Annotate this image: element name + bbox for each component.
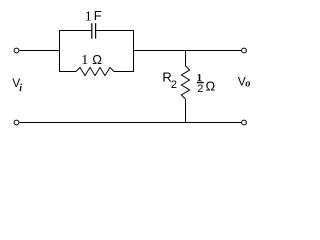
terminal: output bottom (open circle) [242, 120, 247, 125]
svg-text:Ω: Ω [92, 52, 102, 67]
wire: top branch left (to capacitor) [59, 30, 92, 32]
wire: parallel box right vertical [133, 30, 135, 72]
wire: box right to output terminal (through node) [134, 50, 242, 52]
svg-text:i: i [19, 83, 22, 94]
wire: top branch right (capacitor to box right) [96, 30, 134, 32]
wire: bottom rail [19, 122, 241, 124]
capacitor C1 1 F (two plates) [91, 23, 93, 39]
resistor R2 1/2 ohm (vertical zigzag) [181, 66, 189, 99]
svg-text:2: 2 [197, 83, 203, 95]
terminal: output top (open circle) [242, 48, 247, 53]
wire: node down to R2 [185, 50, 187, 66]
svg-text:1: 1 [81, 53, 88, 68]
wire: bottom branch right (1 ohm resistor to box right) [114, 71, 134, 73]
svg-text:o: o [245, 79, 250, 90]
terminal: input bottom (open circle) [14, 120, 19, 125]
wire: R2 bottom to bottom rail [185, 99, 187, 123]
resistor 1 ohm (horizontal zigzag) [76, 67, 114, 75]
svg-text:2: 2 [171, 79, 177, 91]
svg-text:Ω: Ω [206, 79, 216, 94]
wire: input top terminal to parallel box left [19, 50, 59, 52]
wire: parallel box left vertical [59, 30, 61, 72]
terminal: input top (open circle) [14, 48, 19, 53]
svg-text:F: F [94, 8, 102, 23]
svg-text:1: 1 [85, 9, 92, 24]
wire: bottom branch left (to 1 ohm resistor) [59, 71, 76, 73]
